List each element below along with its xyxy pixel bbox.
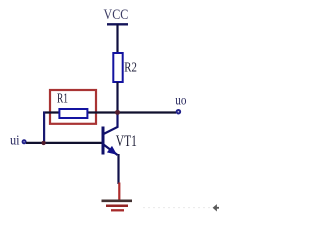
- terminal uo: [177, 110, 181, 114]
- transistor VT1 collector lead: [104, 112, 118, 134]
- svg-text:R2: R2: [124, 60, 137, 75]
- wire left feedback branch vertical: [43, 112, 45, 144]
- annotation highlight box around R1: [50, 90, 96, 124]
- wire input base: [26, 142, 102, 144]
- VCC rail bar: [107, 23, 128, 25]
- transistor VT1 emitter lead: [104, 145, 118, 156]
- wire left feedback branch horizontal: [43, 111, 60, 113]
- wire ground stub (red): [118, 183, 120, 201]
- ground symbol top bar: [102, 200, 133, 203]
- terminal ui: [23, 140, 26, 143]
- svg-text:uo: uo: [175, 94, 186, 109]
- wire R2 bottom to collector node: [116, 82, 118, 113]
- svg-text:R1: R1: [57, 90, 68, 105]
- wire emitter to ground: [117, 154, 119, 184]
- ground symbol bottom bar: [111, 209, 124, 211]
- svg-text:VT1: VT1: [116, 133, 137, 150]
- resistor R1: [59, 109, 87, 118]
- resistor R2: [113, 53, 122, 82]
- svg-text:ui: ui: [10, 134, 20, 149]
- faint dotted guide line: [143, 207, 211, 209]
- transistor VT1 emitter arrowhead: [107, 146, 117, 155]
- wire collector node to output terminal: [88, 111, 176, 113]
- svg-text:VCC: VCC: [104, 7, 129, 23]
- transistor VT1 base bar: [102, 127, 105, 155]
- node base junction: [41, 141, 45, 145]
- cursor arrow (bottom right): [213, 204, 219, 211]
- wire VCC bar to R2 top: [116, 24, 118, 53]
- node collector junction: [115, 110, 120, 115]
- ground symbol middle bar: [106, 205, 128, 208]
